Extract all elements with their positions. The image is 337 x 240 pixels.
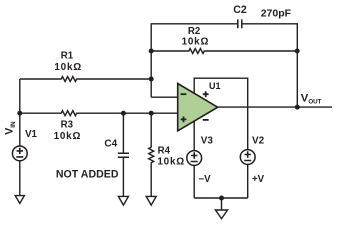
svg-text:C2: C2 xyxy=(233,4,247,16)
svg-text:V2: V2 xyxy=(252,136,265,147)
svg-text:10kΩ: 10kΩ xyxy=(54,131,82,142)
svg-text:10kΩ: 10kΩ xyxy=(54,62,82,73)
svg-text:NOT ADDED: NOT ADDED xyxy=(56,169,119,181)
svg-text:R1: R1 xyxy=(61,50,74,61)
svg-text:R4: R4 xyxy=(158,146,171,157)
svg-text:10kΩ: 10kΩ xyxy=(157,157,185,168)
svg-text:V3: V3 xyxy=(201,136,214,147)
svg-text:10kΩ: 10kΩ xyxy=(182,37,210,48)
svg-text:VIN: VIN xyxy=(4,121,18,135)
svg-text:V1: V1 xyxy=(25,129,37,140)
svg-text:U1: U1 xyxy=(209,81,221,91)
svg-text:+V: +V xyxy=(252,174,265,185)
svg-text:R3: R3 xyxy=(61,119,74,130)
svg-text:C4: C4 xyxy=(104,138,117,149)
svg-text:R2: R2 xyxy=(188,26,200,37)
svg-text:−V: −V xyxy=(199,174,212,185)
svg-text:270pF: 270pF xyxy=(261,8,292,20)
svg-text:VOUT: VOUT xyxy=(301,93,322,106)
